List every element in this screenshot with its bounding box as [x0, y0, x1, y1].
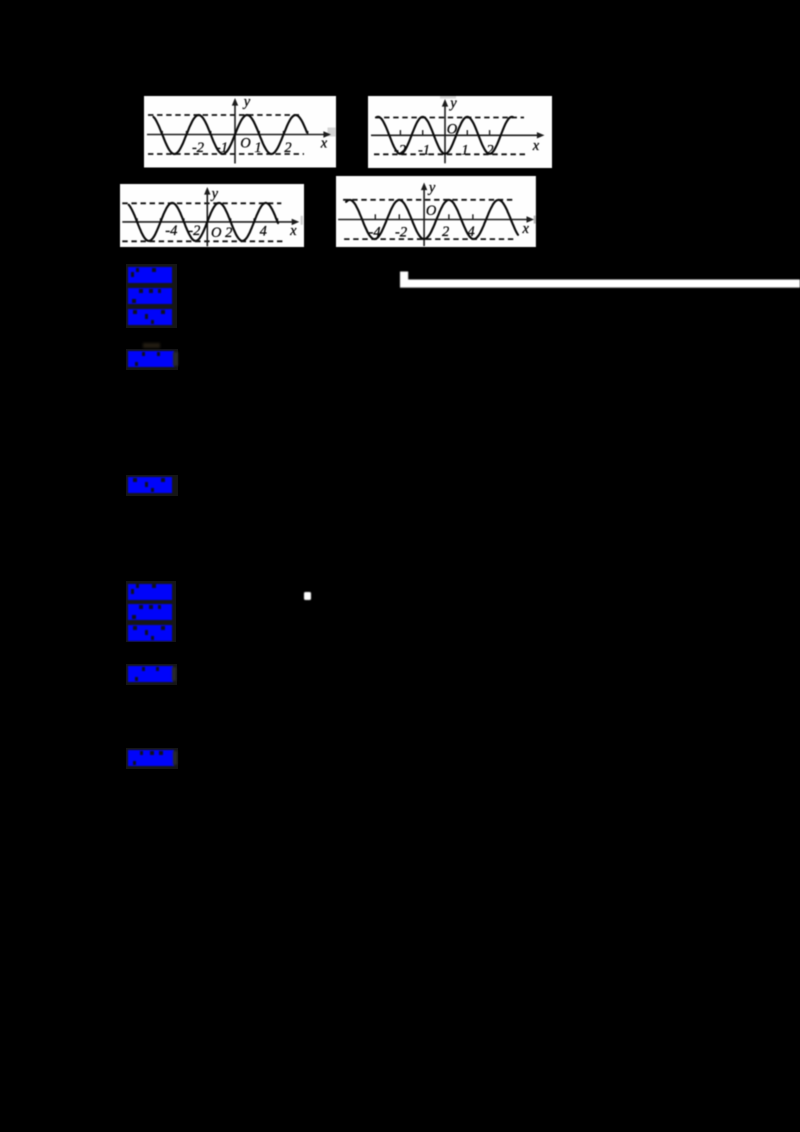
blue label answer-2 — [128, 584, 172, 600]
highlight block behind labels group 1 — [126, 264, 177, 328]
svg-text:y: y — [427, 180, 436, 196]
axis tick marks C — [137, 218, 277, 222]
svg-text:4: 4 — [259, 223, 266, 239]
white plot background C — [120, 184, 304, 248]
y-axis B — [442, 99, 448, 163]
graph panel D — [336, 176, 536, 248]
dashed guide line bottom B — [374, 153, 525, 155]
svg-text:2: 2 — [225, 225, 232, 241]
axis tick marks A — [162, 131, 308, 135]
sinusoid curve C — [128, 203, 277, 241]
svg-text:x: x — [320, 136, 328, 152]
dashed guide line bottom D — [344, 238, 514, 240]
svg-text:2: 2 — [442, 224, 449, 240]
white equation bar with left tab — [398, 269, 800, 290]
svg-text:O: O — [447, 121, 458, 137]
gray sliver right edge C — [300, 215, 302, 224]
sinusoid curve B — [377, 116, 513, 153]
highlight block behind labels group 2 — [126, 581, 176, 642]
gray sliver right edge D — [534, 215, 536, 223]
dashed guide line top C — [122, 202, 281, 204]
blue label analysis-2 — [128, 604, 172, 620]
faint pen squiggle above note-1 — [143, 343, 160, 348]
dashed guide line top A — [148, 114, 302, 116]
axis tick marks B — [400, 130, 489, 135]
white plot background B — [368, 96, 552, 168]
graph panel A — [144, 96, 336, 168]
gray tail after note-1 — [173, 352, 178, 366]
highlight block behind note-3 — [126, 748, 178, 769]
svg-text:2: 2 — [284, 140, 291, 156]
gray smudge top edge B — [440, 96, 456, 99]
white plot background A — [144, 96, 336, 168]
x-axis A — [147, 131, 331, 137]
svg-text:y: y — [209, 185, 218, 201]
x-axis C — [122, 218, 299, 224]
svg-text:-1: -1 — [418, 142, 430, 158]
blue label note-2 — [128, 666, 173, 682]
svg-text:x: x — [289, 222, 297, 238]
svg-text:-1: -1 — [216, 140, 228, 156]
svg-text:y: y — [242, 96, 251, 110]
sinusoid curve D — [346, 200, 518, 239]
axis tick marks D — [375, 214, 473, 219]
highlight block behind note-1 — [126, 349, 178, 370]
x-axis D — [338, 216, 534, 222]
svg-text:2: 2 — [486, 142, 493, 158]
blue label note-3 — [128, 750, 174, 766]
gray tail after note-3 — [173, 751, 177, 765]
highlight block behind note-2 — [126, 664, 177, 685]
svg-text:x: x — [521, 221, 529, 237]
white plot background D — [336, 176, 536, 248]
blue label analysis-1 — [128, 288, 172, 304]
small white square dot — [304, 592, 312, 600]
svg-text:-4: -4 — [165, 223, 177, 239]
svg-text:x: x — [532, 137, 540, 153]
svg-text:-2: -2 — [394, 142, 406, 158]
gray smudge right of arrow A — [328, 128, 336, 137]
blue label note-1 — [128, 351, 174, 367]
dashed guide line top D — [343, 199, 515, 201]
blue label detail-1b — [128, 477, 172, 493]
y-axis A — [232, 98, 238, 164]
x-axis B — [371, 132, 544, 138]
svg-text:-2: -2 — [192, 140, 204, 156]
highlight block behind detail-1b — [126, 475, 178, 496]
blue label detail-2 — [128, 625, 172, 641]
svg-text:1: 1 — [254, 140, 261, 156]
blue label answer-1 — [128, 267, 172, 283]
svg-text:4: 4 — [467, 224, 474, 240]
dashed guide line bottom A — [148, 153, 304, 155]
y-axis C — [204, 187, 210, 246]
y-axis D — [421, 182, 427, 246]
svg-text:-2: -2 — [188, 223, 200, 239]
graph panel C — [120, 184, 304, 248]
dashed guide line top B — [375, 116, 524, 118]
dashed guide line bottom C — [122, 240, 283, 242]
sinusoid curve A — [154, 115, 307, 154]
svg-text:-2: -2 — [395, 224, 407, 240]
gray tail after note-2 — [172, 667, 176, 681]
svg-text:O: O — [211, 225, 222, 241]
blue label detail-1 — [128, 309, 172, 325]
graph panel B — [368, 96, 552, 168]
svg-text:y: y — [448, 96, 457, 111]
svg-text:1: 1 — [461, 142, 468, 158]
svg-text:O: O — [426, 203, 437, 219]
svg-text:-4: -4 — [368, 224, 380, 240]
svg-text:O: O — [240, 136, 251, 152]
